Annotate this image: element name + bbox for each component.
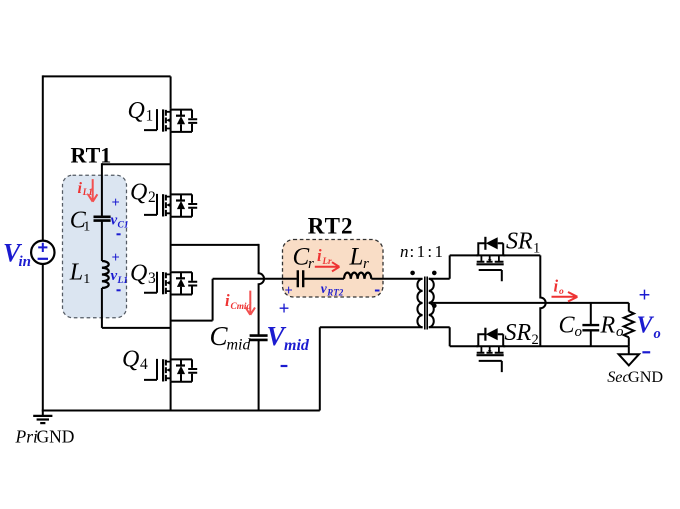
svg-text:L1: L1 [82,187,93,197]
label Q1 [128,98,154,125]
label vL1 [111,268,129,286]
capacitor Cr [298,270,303,287]
wire Co branch [590,303,592,346]
wire secondary top lead [429,255,479,278]
label L1 [69,260,90,288]
wire node B to Cmid [171,244,259,246]
svg-text:o: o [575,324,583,340]
wire center tap output rail [429,302,629,304]
secondary top winding [429,279,434,303]
label Q4 [122,347,148,374]
wire RT1 branch upper [101,163,103,216]
svg-text:o: o [654,326,661,342]
svg-text:L: L [69,260,83,286]
label PriGND [15,426,75,446]
wire bus Q2-Q3 [170,217,172,272]
wire bottom rail primary [42,410,320,412]
wire RT1 branch lower [101,288,103,328]
arrow io [552,292,578,302]
wire Ro branch stubs [628,303,630,346]
svg-text:L1: L1 [117,276,129,286]
svg-text:RT2: RT2 [326,288,344,298]
wire bus Q3-Q4 [170,295,172,359]
wire Cmid lower [258,341,260,411]
svg-text:2: 2 [148,189,156,206]
label SecGND [607,368,663,386]
wire RT2 tap from bus [171,279,213,321]
svg-text:mid: mid [227,336,252,353]
wire primary bottom return [320,327,423,410]
svg-text:i: i [317,246,322,265]
RT1 dashed highlight box [63,175,127,318]
svg-text:Pri: Pri [15,426,39,446]
wire Lr to transformer [371,278,421,280]
capacitor Cmid [250,336,268,340]
wire RT1 bottom return [102,327,171,329]
wire bottom rail secondary [503,345,629,347]
inductor Lr [344,273,371,279]
svg-text:o: o [559,287,564,297]
label iL1 red [78,180,93,197]
svg-text:RT1: RT1 [71,143,112,168]
dot secondary top [432,271,437,276]
arrow iLr [315,262,340,271]
svg-text:+: + [279,298,290,319]
capacitor C1 [94,217,111,221]
voltage source Vin [31,241,54,264]
transistor Q2 [144,194,197,217]
svg-text:Sec: Sec [607,368,630,386]
svg-text:in: in [19,254,32,270]
svg-text:C: C [293,243,310,270]
svg-text:r: r [308,256,314,272]
transistor SR1 [476,237,505,281]
svg-text:C1: C1 [118,220,129,230]
label Q3 [130,260,156,287]
wire top rail [43,75,171,77]
wire SecGND stub [628,346,630,354]
transistor SR2 [476,328,505,372]
wire left vertical lower [42,264,44,411]
svg-text:+: + [112,250,120,266]
svg-text:1: 1 [533,240,540,256]
label vC1 minus [117,233,121,235]
svg-text:1: 1 [83,272,90,287]
svg-text:3: 3 [148,270,156,287]
wire SR1 to output with hop over out rail [503,255,545,346]
svg-text:RT2: RT2 [308,213,354,238]
svg-text:V: V [637,313,655,339]
svg-text:Q: Q [128,98,145,124]
svg-text:+: + [112,195,120,211]
svg-text:L: L [349,243,364,270]
wire bus Q4-ground rail [170,382,172,411]
label vL1 minus [117,289,121,291]
wire node A to RT1 top [102,163,171,165]
core [425,277,427,330]
svg-text:n: n [400,242,409,261]
arrow iCmid [246,291,255,315]
wire left vertical upper [42,75,44,240]
svg-text:SR: SR [506,228,533,254]
label io red [554,277,565,298]
svg-text:i: i [78,180,83,197]
label vRT2 [321,281,344,297]
transistor Q3 [144,271,197,294]
svg-text:v: v [111,268,118,284]
wire bus Q1-Q2 [170,132,172,194]
svg-text:SR: SR [505,320,532,346]
RT2 dashed highlight box [283,240,384,298]
svg-text:mid: mid [284,337,310,354]
svg-text:Lr: Lr [322,256,332,266]
label Cr [293,243,315,272]
primary winding [417,279,422,327]
label Ro [600,313,625,340]
svg-text:C: C [559,313,576,339]
wire Cmid upper with hop over RT2 wire [259,244,264,335]
ground SecGND [619,354,639,365]
label Lr [349,243,370,272]
secondary bottom winding [429,303,434,327]
wire Cr to Lr [304,278,344,280]
svg-text:4: 4 [140,356,148,373]
label Vmid minus [281,365,288,367]
svg-text:r: r [363,256,369,272]
transistor Q1 [144,109,197,132]
wire secondary bottom lead [429,327,479,346]
arrow iL1 [88,179,97,202]
label Co [559,313,583,340]
inductor L1 [102,261,109,288]
resistor Ro [624,311,634,337]
svg-text:+: + [285,283,293,299]
svg-text:i: i [225,291,230,310]
label Vmid [267,321,310,354]
svg-text:2: 2 [532,332,539,348]
label Vo [637,313,661,342]
wire C1-L1 [101,221,103,261]
svg-text:GND: GND [37,426,75,446]
svg-text:R: R [600,313,616,339]
transistor Q4 [144,359,197,382]
label iCmid red [225,291,252,312]
svg-text:o: o [616,324,624,340]
label C1 [70,207,90,234]
label Cmid [210,321,252,353]
svg-text:i: i [554,277,559,296]
label Q2 [130,180,156,207]
svg-text:1: 1 [146,108,154,125]
label Vo minus [642,351,650,353]
svg-text:Q: Q [122,347,139,373]
svg-text:Q: Q [130,180,147,206]
label n:1:1 [400,242,443,261]
ground PriGND [33,411,52,424]
svg-text:v: v [111,212,118,228]
dot primary [410,271,415,276]
label vRT2 minus [375,290,380,292]
transformer T1 [417,277,433,330]
capacitor Co [582,325,599,330]
label SR2 [505,320,539,348]
label vC1 [111,212,129,230]
svg-text:GND: GND [628,368,663,386]
label SR1 [506,228,540,256]
wire RT2 to Cr [213,278,297,280]
label iLr red [317,246,332,266]
svg-text:+: + [639,283,651,307]
dot secondary bottom [432,304,437,309]
svg-text:1: 1 [83,220,90,235]
svg-text:Q: Q [130,260,147,286]
label Vin [3,239,31,271]
wire bus Q1 drain [170,76,172,108]
